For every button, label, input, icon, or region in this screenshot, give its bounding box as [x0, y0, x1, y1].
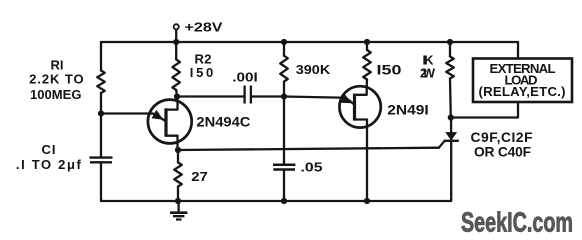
- svg-text:CI: CI: [42, 142, 56, 157]
- capacitor C1: [90, 158, 113, 163]
- junction: 27 ohm at ground rail: [175, 198, 181, 204]
- svg-text:2N494C: 2N494C: [196, 114, 250, 130]
- resistor 390K: [280, 42, 288, 97]
- label 1K 2W value: [420, 53, 436, 81]
- svg-text:I50: I50: [377, 61, 402, 77]
- ground symbol: [170, 201, 187, 220]
- label C1 value (C1 / .1 TO 2uf): [16, 142, 82, 172]
- external load box: [473, 59, 572, 103]
- junction: 150 ohm at top rail: [364, 39, 370, 45]
- wire left branch: top rail corner down to R1: [100, 42, 102, 71]
- label R2 value (R2 / 150): [190, 52, 214, 80]
- svg-text:.I TO 2μf: .I TO 2μf: [16, 157, 82, 172]
- svg-text:2W: 2W: [420, 65, 436, 80]
- svg-text:2N49I: 2N49I: [387, 102, 429, 118]
- wire C2 to trigger node: [252, 95, 285, 97]
- wire C3 to ground rail: [283, 170, 285, 201]
- resistor 1K 2W: [446, 42, 454, 118]
- junction: 1K 2W at top rail: [447, 39, 453, 45]
- junction: 390K / .001 / .05 / UJT2 emitter: [281, 93, 287, 99]
- svg-text:.00I: .00I: [232, 70, 258, 85]
- resistor R1: [97, 71, 105, 94]
- svg-text:+28V: +28V: [185, 20, 224, 34]
- wire +28V top supply rail: [101, 41, 518, 43]
- wire trigger node to UJT2 emitter: [284, 97, 340, 98]
- label R1 value (R1 / 2.2K TO / 100MEG): [29, 57, 84, 102]
- label SCR type C9F,C12F OR C40F: [471, 130, 533, 160]
- wire load box bottom to SCR anode node: [451, 102, 518, 118]
- node: UJT1 base-2 / coupling cap: [174, 93, 180, 99]
- junction: UJT1 base-1 / 27 ohm / gate line: [175, 147, 181, 153]
- capacitor .05: [273, 165, 295, 170]
- transistor Q1 2N494C (UJT): [101, 97, 192, 151]
- junction: C3 at ground rail: [281, 198, 287, 204]
- junction: R1 / C1 / UJT1 emitter: [98, 110, 104, 116]
- svg-text:OR C40F: OR C40F: [474, 144, 531, 159]
- svg-text:C9F,CI2F: C9F,CI2F: [471, 130, 533, 145]
- junction: 390K at top rail: [281, 39, 287, 45]
- svg-text:2.2K TO: 2.2K TO: [29, 71, 84, 86]
- wire R1 bottom to emitter node / C1: [100, 93, 102, 157]
- svg-text:100MEG: 100MEG: [30, 87, 81, 102]
- wire UJT1 base-1 to SCR gate: [178, 148, 439, 150]
- svg-text:390K: 390K: [296, 62, 331, 77]
- wire trigger node down to C3: [283, 97, 285, 165]
- wire top rail corner down to load box: [517, 42, 519, 59]
- wire UJT1 B2 node to C2: [177, 95, 244, 97]
- transistor Q2 2N491 (UJT): [339, 86, 380, 201]
- resistor 27 ohm: [174, 150, 182, 201]
- wire ground/bottom rail: [101, 200, 451, 202]
- svg-text:RI: RI: [51, 57, 64, 72]
- resistor R2: [172, 42, 180, 97]
- svg-text:SeekIC.com: SeekIC.com: [461, 207, 573, 238]
- svg-text:27: 27: [191, 169, 208, 184]
- SCR CR1 (C9F, C12F or C40F): [439, 118, 459, 202]
- label EXTERNAL LOAD (RELAY,ETC.): [479, 61, 566, 99]
- wire C1 bottom to ground rail: [100, 162, 102, 201]
- svg-text:.05: .05: [301, 160, 323, 175]
- resistor 150 ohm (UJT2 base-2): [363, 42, 371, 87]
- svg-text:I50: I50: [190, 65, 214, 80]
- junction: 1K / external load / SCR anode: [448, 114, 454, 120]
- +28V supply terminal: [174, 24, 179, 42]
- svg-text:(RELAY,ETC.): (RELAY,ETC.): [479, 84, 566, 99]
- capacitor .001 (coupling): [245, 86, 251, 104]
- junction: +28V / R2 on top rail: [173, 39, 179, 45]
- junction: UJT2 base-1 at ground rail: [364, 198, 370, 204]
